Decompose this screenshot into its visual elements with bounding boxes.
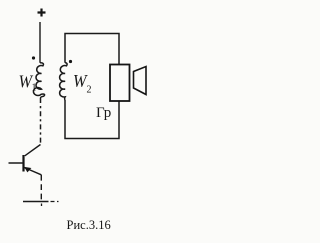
polarity dot W2 — [69, 60, 72, 63]
emitter arrowhead (PNP, pointing to base) — [24, 167, 31, 173]
small dash below rail — [41, 204, 43, 207]
wire collector supply — [39, 22, 41, 63]
winding W2 — [60, 63, 67, 100]
transistor VT collector lead — [25, 145, 41, 156]
loudspeaker Гр driver rectangle — [110, 65, 130, 102]
svg-text:2: 2 — [87, 85, 92, 96]
minus rail wire — [23, 201, 49, 203]
secondary loop wire (top, right, bottom) — [65, 34, 119, 139]
winding W1 — [33, 63, 44, 98]
svg-text:1: 1 — [32, 83, 37, 94]
transistor VT base lead — [9, 162, 24, 164]
transistor VT base bar — [22, 155, 24, 172]
wire dashed below W1 (chain line) — [40, 98, 42, 144]
transistor VT emitter lead with arrow — [25, 168, 42, 175]
svg-text:Гр: Гр — [96, 105, 111, 121]
wire dashed emitter down — [40, 175, 42, 201]
polarity dot W1 — [32, 56, 35, 59]
svg-text:Рис.3.16: Рис.3.16 — [67, 218, 111, 232]
loudspeaker horn cone — [134, 67, 147, 95]
minus rail dash continuation — [51, 201, 59, 203]
plus supply terminal — [38, 9, 46, 17]
